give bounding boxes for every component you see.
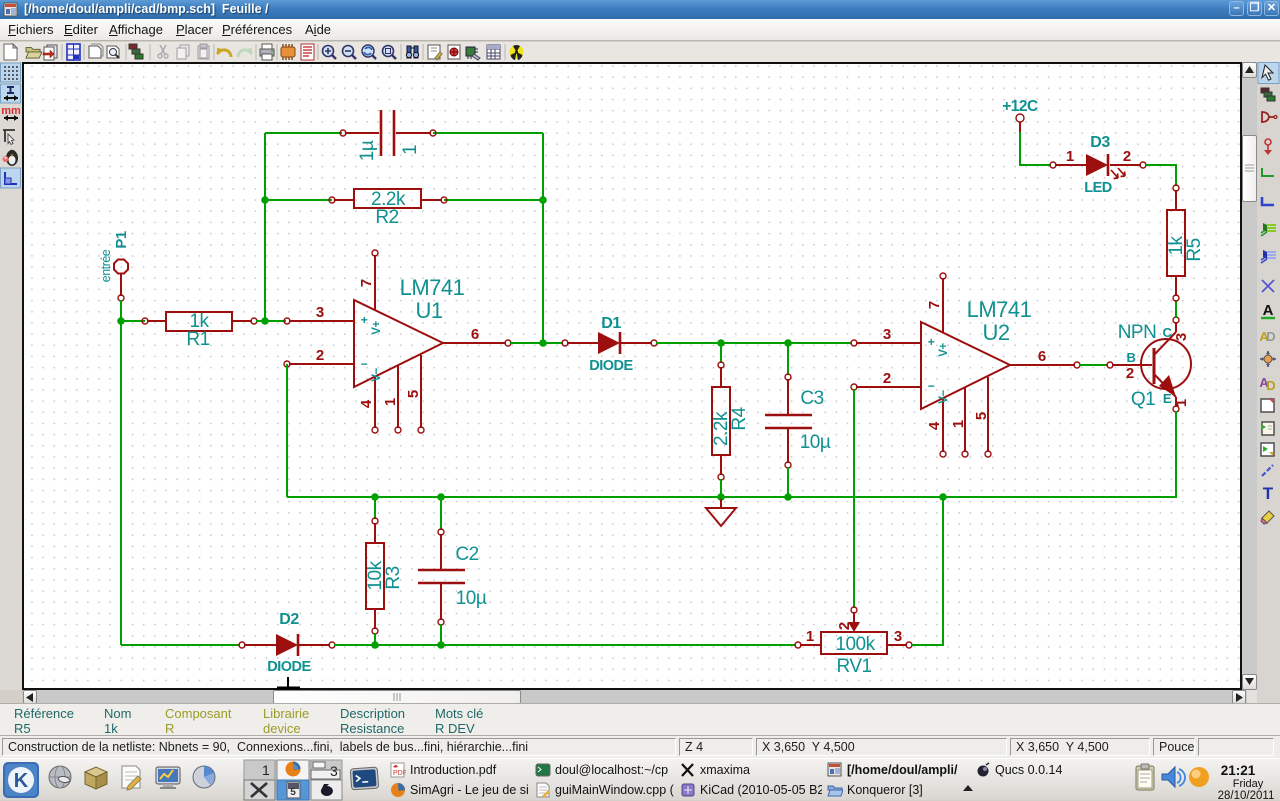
svg-text:T: T bbox=[1263, 484, 1274, 503]
task buttons row1 bbox=[390, 761, 532, 780]
junction bus R3 bbox=[371, 493, 379, 501]
svg-text:21:21: 21:21 bbox=[1221, 763, 1256, 778]
wire RV1 pin3 to bus bbox=[911, 497, 943, 645]
junction U1 out bbox=[539, 339, 547, 347]
wire P1 to R1 bbox=[121, 320, 145, 322]
K menu bbox=[3, 762, 39, 798]
resistor R4 bbox=[711, 362, 750, 480]
tray orange bbox=[1189, 767, 1209, 787]
wire D1 to U2 bbox=[656, 342, 852, 344]
resistor R3 bbox=[365, 518, 404, 634]
wire U1 out bbox=[510, 342, 563, 344]
transistor Q1 NPN bbox=[1107, 317, 1191, 412]
folder box bbox=[85, 767, 107, 789]
svg-text:5: 5 bbox=[290, 787, 296, 798]
junction bus RV1 bbox=[939, 493, 947, 501]
svg-text:PDF: PDF bbox=[393, 770, 406, 777]
svg-text:D: D bbox=[1266, 329, 1275, 344]
capacitor C2 bbox=[418, 529, 487, 625]
capacitor C3 bbox=[765, 374, 831, 468]
svg-text:1: 1 bbox=[262, 762, 270, 778]
wire C2 stub top bbox=[440, 497, 442, 530]
wire R4 stub bottom bbox=[720, 479, 722, 497]
wire U1 pin2 vertical bbox=[286, 364, 288, 497]
task buttons row2 bbox=[390, 781, 532, 800]
junction bottom R3 bbox=[371, 641, 379, 649]
wire U2 pin2 vertical bbox=[853, 389, 855, 608]
wire C3 stub top bbox=[787, 343, 789, 375]
wire U2 out bbox=[1079, 364, 1108, 366]
monitor bbox=[156, 767, 180, 789]
junction P1 bbox=[117, 317, 125, 325]
wire R2 right bbox=[444, 199, 543, 201]
wire Q1 emitter down bbox=[1175, 411, 1177, 497]
op-amp U1 LM741 bbox=[284, 250, 511, 433]
resistor R5 bbox=[1166, 185, 1205, 301]
junction bottom C2 bbox=[437, 641, 445, 649]
ground symbol bbox=[706, 499, 736, 526]
power +12C bbox=[1002, 98, 1038, 132]
hide arrow bbox=[963, 785, 973, 791]
wire main ground bus bbox=[287, 496, 1177, 498]
junction bus C3 bbox=[784, 493, 792, 501]
potentiometer RV1 bbox=[795, 607, 912, 677]
wire C3 stub bottom bbox=[787, 467, 789, 497]
wire R3 stub top bbox=[374, 497, 376, 519]
wire top feedback left segment bbox=[265, 132, 342, 134]
diode D2 bbox=[239, 611, 335, 675]
wire Q1 collector stub bbox=[1175, 300, 1177, 318]
diode D3 LED bbox=[1050, 134, 1146, 196]
junction bus R4 bbox=[717, 493, 725, 501]
globe mouse bbox=[49, 766, 71, 788]
cursor crosshair bbox=[277, 677, 300, 689]
svg-text:A: A bbox=[1263, 302, 1274, 319]
junction top-left R2 bbox=[261, 196, 269, 204]
connector P1 entrée bbox=[99, 231, 130, 301]
wire P1 down bbox=[120, 300, 122, 645]
junction R4 top bbox=[717, 339, 725, 347]
resistor R2 bbox=[329, 189, 447, 228]
wire C2 stub bottom bbox=[440, 624, 442, 645]
junction R1/U1 bbox=[261, 317, 269, 325]
wire +12C to D3 bbox=[1020, 132, 1051, 165]
wire R4 stub top bbox=[720, 343, 722, 363]
svg-text:K: K bbox=[14, 770, 29, 792]
junction C3 top bbox=[784, 339, 792, 347]
wire R1 to U1 pin3 bbox=[256, 320, 286, 322]
terminal icon bbox=[350, 767, 378, 790]
wire bottom horizontal bbox=[121, 644, 240, 646]
capacitor C1 1µ bbox=[340, 110, 436, 161]
svg-text:Friday: Friday bbox=[1233, 778, 1264, 790]
wire left vertical feedback bbox=[264, 133, 266, 321]
wire D3 to R5 bbox=[1145, 165, 1176, 186]
junction bus C2 bbox=[437, 493, 445, 501]
op-amp U2 LM741 bbox=[851, 273, 1080, 457]
diode D1 bbox=[562, 315, 657, 374]
svg-text:28/10/2011: 28/10/2011 bbox=[1218, 790, 1275, 801]
wire R3 stub bottom bbox=[374, 633, 376, 645]
wire R2 left bbox=[265, 199, 332, 201]
tray speaker bbox=[1162, 767, 1185, 787]
svg-text:mm: mm bbox=[1, 105, 21, 117]
tray clipboard bbox=[1136, 764, 1154, 790]
svg-text:D: D bbox=[1266, 378, 1275, 393]
wire D2 to RV1 bbox=[334, 644, 796, 646]
wire right vertical feedback bbox=[542, 133, 544, 343]
doc pencil bbox=[122, 766, 141, 790]
junction top-right R2 bbox=[539, 196, 547, 204]
globe pie bbox=[193, 766, 215, 788]
wire top feedback right segment bbox=[433, 132, 543, 134]
pager bbox=[244, 760, 341, 800]
resistor R1 bbox=[142, 311, 257, 350]
svg-text:3: 3 bbox=[330, 763, 338, 779]
